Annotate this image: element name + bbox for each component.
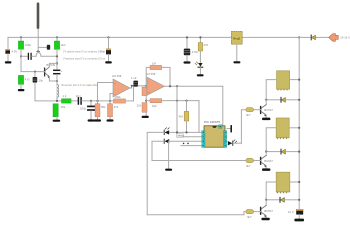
svg-text:470u: 470u <box>192 50 199 54</box>
svg-text:9 V: 9 V <box>100 50 104 54</box>
svg-text:PIC 12F675: PIC 12F675 <box>204 120 220 124</box>
resistor R8 feedback <box>114 99 126 103</box>
IC U3 pin top <box>219 125 222 129</box>
node y101 x57 <box>56 100 58 102</box>
resistor R15 base <box>241 108 260 144</box>
resistor R14 LED <box>198 37 202 62</box>
node rail-R2 <box>56 36 58 38</box>
ground D3 <box>197 74 204 76</box>
svg-text:Reg5: Reg5 <box>233 37 241 41</box>
port supply arrow <box>329 34 339 42</box>
wire hop over antenna line <box>36 53 41 57</box>
node base row <box>34 71 36 73</box>
ground V3 <box>105 61 112 63</box>
svg-text:47k: 47k <box>114 105 119 109</box>
node rail x299 <box>298 36 300 38</box>
node x110 <box>109 100 111 102</box>
svg-text:(*)various used (*) on ceramic: (*)various used (*) on ceramic 0.5 ns <box>63 57 106 61</box>
node D7 rail <box>298 199 300 201</box>
capacitor C1 <box>28 53 31 59</box>
diode D2 <box>164 139 169 143</box>
battery V2 <box>296 209 303 219</box>
node rail-R1 <box>20 36 22 38</box>
node marks row4 <box>183 143 185 145</box>
ground Q3 <box>262 118 270 121</box>
wire RL1 left <box>266 80 276 100</box>
svg-text:4k7: 4k7 <box>247 215 252 219</box>
svg-text:100k: 100k <box>115 95 122 99</box>
svg-text:13-16 V: 13-16 V <box>340 36 350 40</box>
node RL2 rail <box>298 127 300 129</box>
wire gnd tap ch2 <box>168 141 170 168</box>
node D5 rail <box>298 99 300 101</box>
capacitor C5 to gnd <box>88 101 94 120</box>
wire pin row1 <box>170 131 201 133</box>
wire Q2 emitter <box>49 77 57 81</box>
wire RL2 right <box>289 127 299 129</box>
diode D4 supply <box>299 35 328 40</box>
resistor R11 feedback top <box>146 65 170 85</box>
source V1 <box>5 49 10 54</box>
svg-text:1 k: 1 k <box>63 94 67 98</box>
wire +12V rail vertical <box>298 37 300 209</box>
ground V2 <box>294 219 304 222</box>
wire R5 gnd <box>56 117 58 120</box>
wire ecap3 top <box>34 72 36 77</box>
resistor R13 riser <box>184 101 189 133</box>
svg-text:4k7: 4k7 <box>246 164 251 168</box>
inductor L1 <box>56 85 58 98</box>
resistor R1 <box>18 41 23 49</box>
wire op1 output <box>130 86 134 88</box>
svg-text:10k: 10k <box>152 104 157 108</box>
node RL1 rail <box>298 79 300 81</box>
node D7 left <box>265 199 267 201</box>
label net wkup <box>177 134 202 138</box>
svg-text:4M: 4M <box>179 114 184 118</box>
svg-text:1M: 1M <box>152 61 157 65</box>
node R1-C1 <box>20 55 22 57</box>
node gain row left <box>145 100 147 102</box>
wire R2 bottom column <box>56 49 58 68</box>
svg-text:56k: 56k <box>101 105 106 109</box>
diode D6 <box>266 149 299 154</box>
ground R7 <box>107 119 114 121</box>
wire top rail <box>8 36 299 38</box>
node op1 out <box>131 85 133 87</box>
IC U3 pins left <box>202 131 205 148</box>
diode D7 <box>266 197 299 202</box>
ground Q4 <box>262 168 270 171</box>
resistor R17 base <box>147 210 260 215</box>
capacitor C4 <box>78 98 81 104</box>
svg-text:2k2: 2k2 <box>61 43 66 47</box>
node out x177 <box>176 85 178 87</box>
svg-text:10 n: 10 n <box>76 94 82 98</box>
wire pin row4 stub <box>181 145 201 147</box>
resistor R6 vertical <box>95 101 100 120</box>
IC U3 pins right <box>223 131 226 148</box>
svg-text:470: 470 <box>25 77 30 81</box>
wire L1 to node <box>56 97 58 101</box>
wire rail to R2 <box>56 37 58 41</box>
wire op2 output row <box>165 85 223 87</box>
wire V3 bottom <box>108 54 110 61</box>
wire C3 down to row <box>34 83 36 101</box>
svg-text:4k7: 4k7 <box>246 113 251 117</box>
resistor R9 vertical upper <box>142 86 147 103</box>
svg-text:IR sensor dim 0.3 us make Dist: IR sensor dim 0.3 us make Dist <box>61 83 97 87</box>
wire C6 to op2 <box>138 85 147 87</box>
op-amp U1A <box>113 79 130 97</box>
resistor R16 base <box>152 158 261 162</box>
relay RL3 <box>276 172 290 192</box>
node x91 <box>90 100 92 102</box>
node row1 x177 <box>176 131 178 133</box>
capacitor C2 <box>54 70 60 73</box>
pin dots <box>203 126 226 146</box>
ground R5 <box>53 120 61 122</box>
wire R8 to riser <box>126 100 134 102</box>
node D6 rail <box>298 151 300 153</box>
regulator U2 <box>231 31 242 61</box>
svg-text:LM 358: LM 358 <box>112 74 122 78</box>
wire gain row corner to PIC <box>198 101 200 133</box>
capacitor C8 pin right <box>227 126 231 132</box>
resistor R5 vertical <box>53 104 58 117</box>
wire +in op1 <box>98 83 114 101</box>
source V3 <box>106 49 111 55</box>
node C7 rail <box>186 36 188 38</box>
svg-text:470: 470 <box>203 43 208 47</box>
transistor Q4 <box>261 152 267 169</box>
resistor R10 vertical lower <box>142 103 147 116</box>
svg-text:1 uF: 1 uF <box>131 76 137 80</box>
svg-text:22k: 22k <box>137 103 142 107</box>
svg-text:10u: 10u <box>38 78 43 82</box>
diode D8 pic out <box>228 140 242 146</box>
node rail V3 <box>107 36 109 38</box>
node y63 <box>56 62 58 64</box>
svg-text:12 V: 12 V <box>288 210 294 214</box>
svg-text:BC547: BC547 <box>264 209 273 213</box>
wire Q2 collector <box>49 63 57 66</box>
node D5 left <box>265 99 267 101</box>
transistor Q5 <box>261 200 267 218</box>
relay RL2 pins <box>278 138 287 139</box>
op-amp U1B <box>147 77 165 95</box>
wire V3 top <box>108 37 110 48</box>
svg-text:100n: 100n <box>80 106 87 110</box>
node D6 left <box>265 151 267 153</box>
svg-text:wkup: wkup <box>177 134 184 138</box>
relay RL2 <box>276 118 289 138</box>
wire R4 to C4 <box>71 100 78 102</box>
antenna <box>37 3 40 51</box>
relay RL1 pins <box>278 89 287 90</box>
svg-text:LM 358: LM 358 <box>146 72 156 76</box>
wire C4 right <box>82 100 114 102</box>
wire V1 to ground <box>7 54 9 62</box>
resistor R12 gain row <box>146 99 199 103</box>
wire base row y71.6 <box>21 71 45 73</box>
resistor R3 <box>18 75 23 84</box>
capacitor C ant <box>47 45 50 50</box>
node x97.5 <box>96 100 98 102</box>
capacitor C3 electrolytic <box>33 77 38 83</box>
wire V1 drop <box>7 37 9 49</box>
wire C1 left <box>21 55 28 57</box>
diode D5 <box>266 97 299 102</box>
wire D1 to corner <box>147 132 164 214</box>
ground R10 <box>142 116 149 118</box>
wire rail to R1 <box>20 37 22 41</box>
node out x170 <box>169 85 171 87</box>
transistor Q3 <box>261 100 267 118</box>
wire RL3 right <box>290 181 299 183</box>
resistor R4 <box>62 99 72 103</box>
wire pin row3 <box>170 140 201 142</box>
svg-text:4.5V: 4.5V <box>12 49 18 53</box>
wire Q1 stub to C <box>38 46 46 48</box>
svg-text:+: + <box>61 69 63 73</box>
svg-text:10k: 10k <box>61 105 66 109</box>
ground U2 <box>233 61 240 63</box>
relay RL1 <box>277 71 290 89</box>
node y81 <box>56 80 58 82</box>
relay RL3 pins <box>278 192 287 193</box>
node gain x177 <box>176 100 178 102</box>
capacitor C7 rail <box>184 37 190 61</box>
resistor R7 vertical <box>108 101 113 120</box>
transistor Q1 base bar <box>36 51 40 53</box>
svg-text:BC547: BC547 <box>264 159 273 163</box>
wire RL2 left <box>266 128 276 152</box>
ground Q5 <box>261 218 269 221</box>
node y56 <box>56 55 58 57</box>
ground C5 <box>88 119 95 121</box>
wire D2 to corner ch2 <box>152 141 164 160</box>
wire R1 bottom <box>20 49 22 71</box>
ground V1 <box>5 61 12 63</box>
ground R3 <box>18 89 25 91</box>
wire riser x177 <box>176 86 178 132</box>
capacitor C6 electrolytic <box>133 81 138 87</box>
wire C1 right <box>32 55 36 57</box>
IC U3 PIC12F675 <box>204 126 225 147</box>
node RL3 rail <box>298 181 300 183</box>
node R14 rail <box>199 36 201 38</box>
LED D3 <box>195 62 203 74</box>
wire C2 to L1 <box>56 75 58 85</box>
ground tap <box>165 169 172 171</box>
wire signal row y101 <box>35 100 61 102</box>
wire -in op1 <box>110 94 113 101</box>
wire y56 to node <box>41 55 57 57</box>
node gain x186.5 <box>185 100 187 102</box>
resistor R2 <box>54 41 59 49</box>
wire RL3 left <box>266 182 276 200</box>
wire RL1 right <box>290 79 300 81</box>
node x143.5 signal <box>145 85 147 87</box>
transistor Q2 <box>45 67 50 78</box>
wire R3 bottom <box>20 84 22 89</box>
diode D1 <box>164 128 169 135</box>
wire op2 out to PIC top <box>222 86 224 125</box>
node row1 x186.5 <box>185 131 187 133</box>
svg-text:-: - <box>148 80 149 83</box>
wire output riser x133.5 <box>133 86 135 101</box>
ground C7 <box>184 61 191 63</box>
ground R6 <box>94 119 101 121</box>
svg-text:100k: 100k <box>25 43 32 47</box>
svg-text:BC547: BC547 <box>264 108 273 112</box>
